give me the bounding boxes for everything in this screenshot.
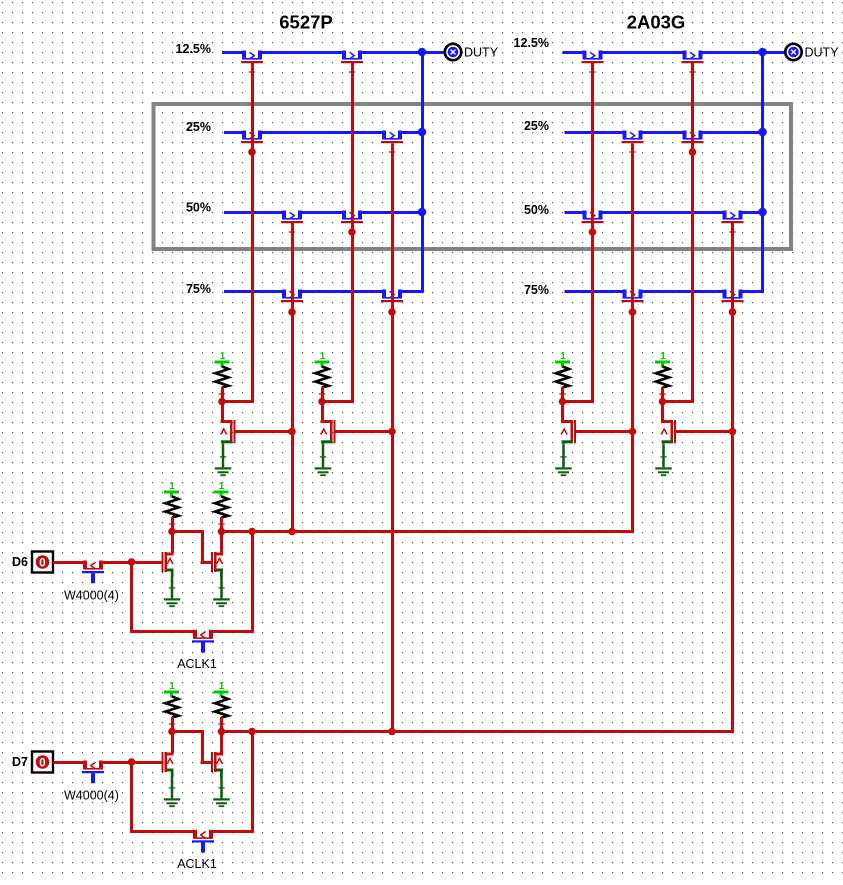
ground xyxy=(222,444,225,467)
junction col B' / 25% gate xyxy=(689,148,697,156)
svg-text:75%: 75% xyxy=(524,283,549,297)
svg-text:DUTY: DUTY xyxy=(805,46,840,60)
svg-text:25%: 25% xyxy=(186,120,211,134)
input pin D7 state indicator 0 xyxy=(36,755,50,769)
wire M2 source xyxy=(220,770,223,778)
input pin D6 box xyxy=(32,552,53,573)
junction column C tap (D6) xyxy=(288,528,296,536)
wire stub tick xyxy=(289,231,295,232)
svg-text:1: 1 xyxy=(169,481,175,492)
wire node A to M2 gate xyxy=(172,730,204,733)
wire 50% duty line (6527P) xyxy=(224,211,424,214)
junction duty rail xyxy=(418,208,427,217)
pass transistor W4000(4) (D6 write gate) xyxy=(87,560,99,566)
wire node to column xyxy=(322,400,354,403)
svg-text:25%: 25% xyxy=(524,119,549,133)
pass transistor ACLK1 (D6 refresh gate) xyxy=(197,629,209,635)
wire stub tick xyxy=(689,71,695,72)
svg-text:W4000(4): W4000(4) xyxy=(64,789,119,803)
svg-text:0: 0 xyxy=(39,558,45,570)
wire M2 source xyxy=(220,570,223,578)
pass transistor ACLK1 (D7 refresh gate) xyxy=(197,829,209,835)
junction R2 drain (D7) xyxy=(218,728,226,736)
wire resistor stub xyxy=(221,387,224,400)
junction duty rail xyxy=(758,128,767,137)
junction node MP4 drain xyxy=(659,398,667,406)
junction col C / 75% gate xyxy=(288,308,296,316)
output connector DUTY (2A03G) xyxy=(785,44,801,60)
svg-text:2A03G: 2A03G xyxy=(627,12,686,33)
junction col D / 75% gate xyxy=(388,308,396,316)
wire feedback loop down xyxy=(130,562,133,633)
wire resistor stub xyxy=(561,387,564,400)
pass transistor Q15 (75% C') xyxy=(627,289,639,295)
wire gate column B' (2A03G) xyxy=(691,63,694,403)
junction col C / MP1 gate xyxy=(288,428,296,436)
output connector DUTY (6527P) xyxy=(445,44,461,60)
pass transistor Q5 (50% C) xyxy=(286,210,298,216)
wire node A to M2 gate xyxy=(172,530,204,533)
transistor MP1 (column driver, 6527P) xyxy=(221,402,224,422)
pass transistor Q1 (12.5% A) xyxy=(246,50,258,56)
transistor M1 (D7 latch) xyxy=(162,752,164,772)
resistor R2 (D6 latch load) xyxy=(215,497,228,518)
wire gate column A' (2A03G) xyxy=(591,63,594,403)
pass transistor Q3 (25% A) xyxy=(246,130,258,136)
wire gate column C' (2A03G) xyxy=(631,144,634,534)
transistor M2 (D7 latch) xyxy=(211,752,213,772)
junction R2 drain (D6) xyxy=(218,528,226,536)
wire node to column xyxy=(663,400,695,403)
wire D6 input xyxy=(53,561,162,564)
junction input node xyxy=(128,558,136,566)
wire output rail (2A03G) xyxy=(761,51,764,293)
junction duty rail xyxy=(758,48,767,57)
junction input node xyxy=(128,758,136,766)
svg-text:DUTY: DUTY xyxy=(464,46,499,60)
svg-text:1: 1 xyxy=(560,351,566,362)
wire 25% duty line (6527P) xyxy=(224,131,424,134)
wire 12.5% duty line (6527P) xyxy=(222,51,445,54)
wire 12.5% duty line (2A03G) xyxy=(563,51,786,54)
svg-text:0: 0 xyxy=(39,758,45,770)
junction duty rail xyxy=(418,128,427,137)
junction col C' / 75% gate xyxy=(629,308,637,316)
ground xyxy=(220,772,223,798)
svg-text:1: 1 xyxy=(660,351,666,362)
wire resistor stub xyxy=(171,517,174,531)
junction col C' / MP3 gate xyxy=(629,428,637,436)
resistor R1 (D7 latch load) xyxy=(166,697,179,718)
pass transistor Q2 (12.5% B) xyxy=(346,50,358,56)
svg-text:6527P: 6527P xyxy=(279,12,333,33)
transistor M2 (D6 latch) xyxy=(211,552,213,572)
resistor RL4 (load, 2A03G) xyxy=(656,367,669,388)
svg-text:ACLK1: ACLK1 xyxy=(177,657,217,671)
junction col B / 50% gate xyxy=(348,228,356,236)
wire 50% duty line (2A03G) xyxy=(565,211,765,214)
wire stub tick xyxy=(349,71,355,72)
wire resistor stub xyxy=(321,387,324,400)
ground xyxy=(322,444,325,467)
wire feedback loop down xyxy=(130,762,133,833)
junction col A / 25% gate xyxy=(248,148,256,156)
wire gate column A (6527P) xyxy=(251,63,254,403)
resistor RL3 (load, 2A03G) xyxy=(556,367,569,388)
pass transistor Q6 (50% B) xyxy=(346,210,358,216)
junction col A' / 50% gate xyxy=(589,228,597,236)
junction col D / MP2 gate xyxy=(388,428,396,436)
wire node B rail of D6 latch (to 75%C and 25%C' gates) xyxy=(222,530,635,533)
pass transistor Q14 (50% D') xyxy=(727,210,739,216)
pass transistor Q4 (25% D) xyxy=(386,130,398,136)
wire resistor stub xyxy=(171,717,174,731)
wire gate column D' (2A03G) xyxy=(731,223,734,733)
wire stub tick xyxy=(589,71,595,72)
wire D7 input xyxy=(53,761,162,764)
pass transistor Q8 (75% D) xyxy=(386,289,398,295)
resistor R1 (D6 latch load) xyxy=(166,497,179,518)
wire MP1 gate lead xyxy=(236,430,294,433)
gray group frame around 25%/50% rows xyxy=(154,104,792,249)
wire feedback loop bottom xyxy=(130,830,254,833)
transistor MP3 (column driver, 2A03G) xyxy=(561,402,564,422)
transistor MP4 (column driver, 2A03G) xyxy=(661,402,664,422)
wire MP3 gate lead xyxy=(576,430,634,433)
wire 75% duty line (2A03G) xyxy=(565,290,765,293)
junction duty rail xyxy=(418,48,427,57)
junction node MP1 drain xyxy=(218,398,226,406)
svg-text:12.5%: 12.5% xyxy=(176,42,211,56)
wire node to column xyxy=(563,400,595,403)
wire M1 source xyxy=(171,770,174,778)
wire resistor stub xyxy=(220,717,223,731)
ground xyxy=(171,572,174,598)
resistor R2 (D7 latch load) xyxy=(215,697,228,718)
wire node to column xyxy=(222,400,254,403)
junction node A xyxy=(168,528,176,536)
input pin D6 state indicator 0 xyxy=(36,555,50,569)
wire stub tick xyxy=(249,71,255,72)
junction feedback/node B xyxy=(248,528,256,536)
ground xyxy=(220,572,223,598)
wire stub tick xyxy=(629,151,635,152)
junction node MP3 drain xyxy=(559,398,567,406)
wire 75% duty line (6527P) xyxy=(224,290,424,293)
wire MP2 gate lead xyxy=(336,430,394,433)
svg-text:1: 1 xyxy=(219,681,225,692)
junction col D' / MP4 gate xyxy=(729,428,737,436)
pass transistor Q16 (75% D') xyxy=(727,289,739,295)
svg-text:D7: D7 xyxy=(12,755,28,769)
resistor RL2 (load, 6527P) xyxy=(316,367,329,388)
wire feedback loop up xyxy=(251,532,254,633)
wire node B rail of D7 latch (to 25%D and 50%D' gates) xyxy=(222,730,735,733)
resistor RL1 (load, 6527P) xyxy=(216,367,229,388)
svg-text:W4000(4): W4000(4) xyxy=(64,589,119,603)
ground xyxy=(562,444,565,467)
junction column D tap (D7) xyxy=(388,728,396,736)
junction node A xyxy=(168,728,176,736)
wire gate column D (6527P) xyxy=(391,144,394,734)
wire resistor stub xyxy=(220,517,223,531)
transistor MP2 (column driver, 6527P) xyxy=(321,402,324,422)
junction node MP2 drain xyxy=(318,398,326,406)
input pin D7 box xyxy=(32,752,53,773)
ground xyxy=(171,772,174,798)
wire 25% duty line (2A03G) xyxy=(565,131,765,134)
svg-text:50%: 50% xyxy=(186,201,211,215)
svg-text:12.5%: 12.5% xyxy=(514,36,549,50)
svg-text:1: 1 xyxy=(220,351,226,362)
svg-text:1: 1 xyxy=(169,681,175,692)
svg-text:1: 1 xyxy=(219,481,225,492)
ground xyxy=(662,444,665,467)
junction feedback/node B xyxy=(248,728,256,736)
wire gate column B (6527P) xyxy=(351,63,354,403)
wire stub tick xyxy=(729,231,735,232)
wire feedback loop up xyxy=(251,732,254,833)
svg-text:75%: 75% xyxy=(186,282,211,296)
svg-text:ACLK1: ACLK1 xyxy=(177,857,217,871)
pass transistor Q12 (25% B') xyxy=(687,130,699,136)
svg-text:50%: 50% xyxy=(524,203,549,217)
wire feedback loop bottom xyxy=(130,630,254,633)
svg-text:D6: D6 xyxy=(12,555,28,569)
pass transistor Q7 (75% C) xyxy=(286,289,298,295)
junction duty rail xyxy=(758,208,767,217)
pass transistor Q10 (12.5% B') xyxy=(687,50,699,56)
wire stub tick xyxy=(389,151,395,152)
pass transistor Q11 (25% C') xyxy=(627,130,639,136)
junction col D' / 75% gate xyxy=(729,308,737,316)
wire gate column C (6527P) xyxy=(291,223,294,533)
pass transistor W4000(4) (D7 write gate) xyxy=(87,760,99,766)
svg-text:1: 1 xyxy=(320,351,326,362)
wire resistor stub xyxy=(661,387,664,400)
pass transistor Q13 (50% A') xyxy=(587,210,599,216)
wire M1 source xyxy=(171,570,174,578)
transistor M1 (D6 latch) xyxy=(162,552,164,572)
wire output rail (6527P) xyxy=(421,51,424,293)
wire MP4 gate lead xyxy=(676,430,734,433)
pass transistor Q9 (12.5% A') xyxy=(587,50,599,56)
